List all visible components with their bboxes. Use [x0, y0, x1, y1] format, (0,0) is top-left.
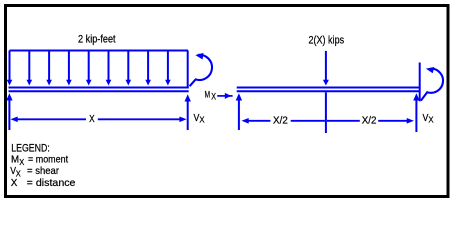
svg-text:X: X	[428, 116, 434, 125]
load arrow 4	[66, 51, 72, 86]
svg-text:X: X	[19, 157, 24, 167]
load arrow 5	[86, 51, 92, 86]
right beam: right shear arrow V_X + extension	[413, 93, 419, 132]
M_X arrow	[217, 93, 232, 99]
right beam (double line)	[237, 88, 421, 92]
cut face vertical at right beam end	[419, 63, 421, 102]
load arrow 8	[145, 51, 151, 86]
svg-text:2(X) kips: 2(X) kips	[309, 34, 345, 46]
svg-text:= distance: = distance	[27, 177, 76, 189]
distributed load arrows	[7, 51, 188, 89]
load arrow 3	[46, 51, 52, 86]
left beam: left cut shear arrow + extension line	[6, 93, 12, 130]
legend text	[10, 143, 75, 189]
svg-text:M: M	[205, 90, 211, 101]
load arrow 9	[165, 51, 171, 86]
svg-text:X: X	[199, 116, 205, 125]
dimension line X/2 (left half)	[242, 118, 325, 124]
dimension line X (left beam)	[11, 117, 187, 123]
dimension line X/2 (right half)	[327, 118, 414, 124]
point load arrow	[323, 51, 329, 86]
svg-text:X/2: X/2	[273, 114, 288, 126]
svg-text:X: X	[89, 113, 95, 125]
load arrow 1	[7, 51, 13, 86]
left beam (double line)	[9, 88, 189, 92]
load arrow 7	[126, 51, 132, 86]
distributed load top line	[10, 50, 189, 52]
center extension line under point load	[325, 92, 327, 133]
load arrow 2	[27, 51, 33, 86]
svg-text:2 kip-feet: 2 kip-feet	[78, 33, 116, 45]
svg-text:M: M	[11, 154, 19, 166]
svg-text:X: X	[211, 92, 216, 102]
svg-text:X/2: X/2	[362, 115, 377, 127]
load arrow 10 / right edge of load	[187, 51, 189, 89]
left beam: right shear arrow V_X + extension line	[185, 94, 191, 130]
moment arc M_X (left beam)	[190, 55, 212, 86]
svg-text:X: X	[11, 177, 18, 189]
load arrow 6	[106, 51, 112, 86]
svg-text:= shear: = shear	[27, 165, 59, 177]
right beam: left cut shear arrow + extension	[236, 93, 242, 130]
border frame	[6, 6, 449, 197]
svg-text:= moment: = moment	[28, 154, 68, 166]
moment arc M (right beam end)	[421, 69, 443, 101]
